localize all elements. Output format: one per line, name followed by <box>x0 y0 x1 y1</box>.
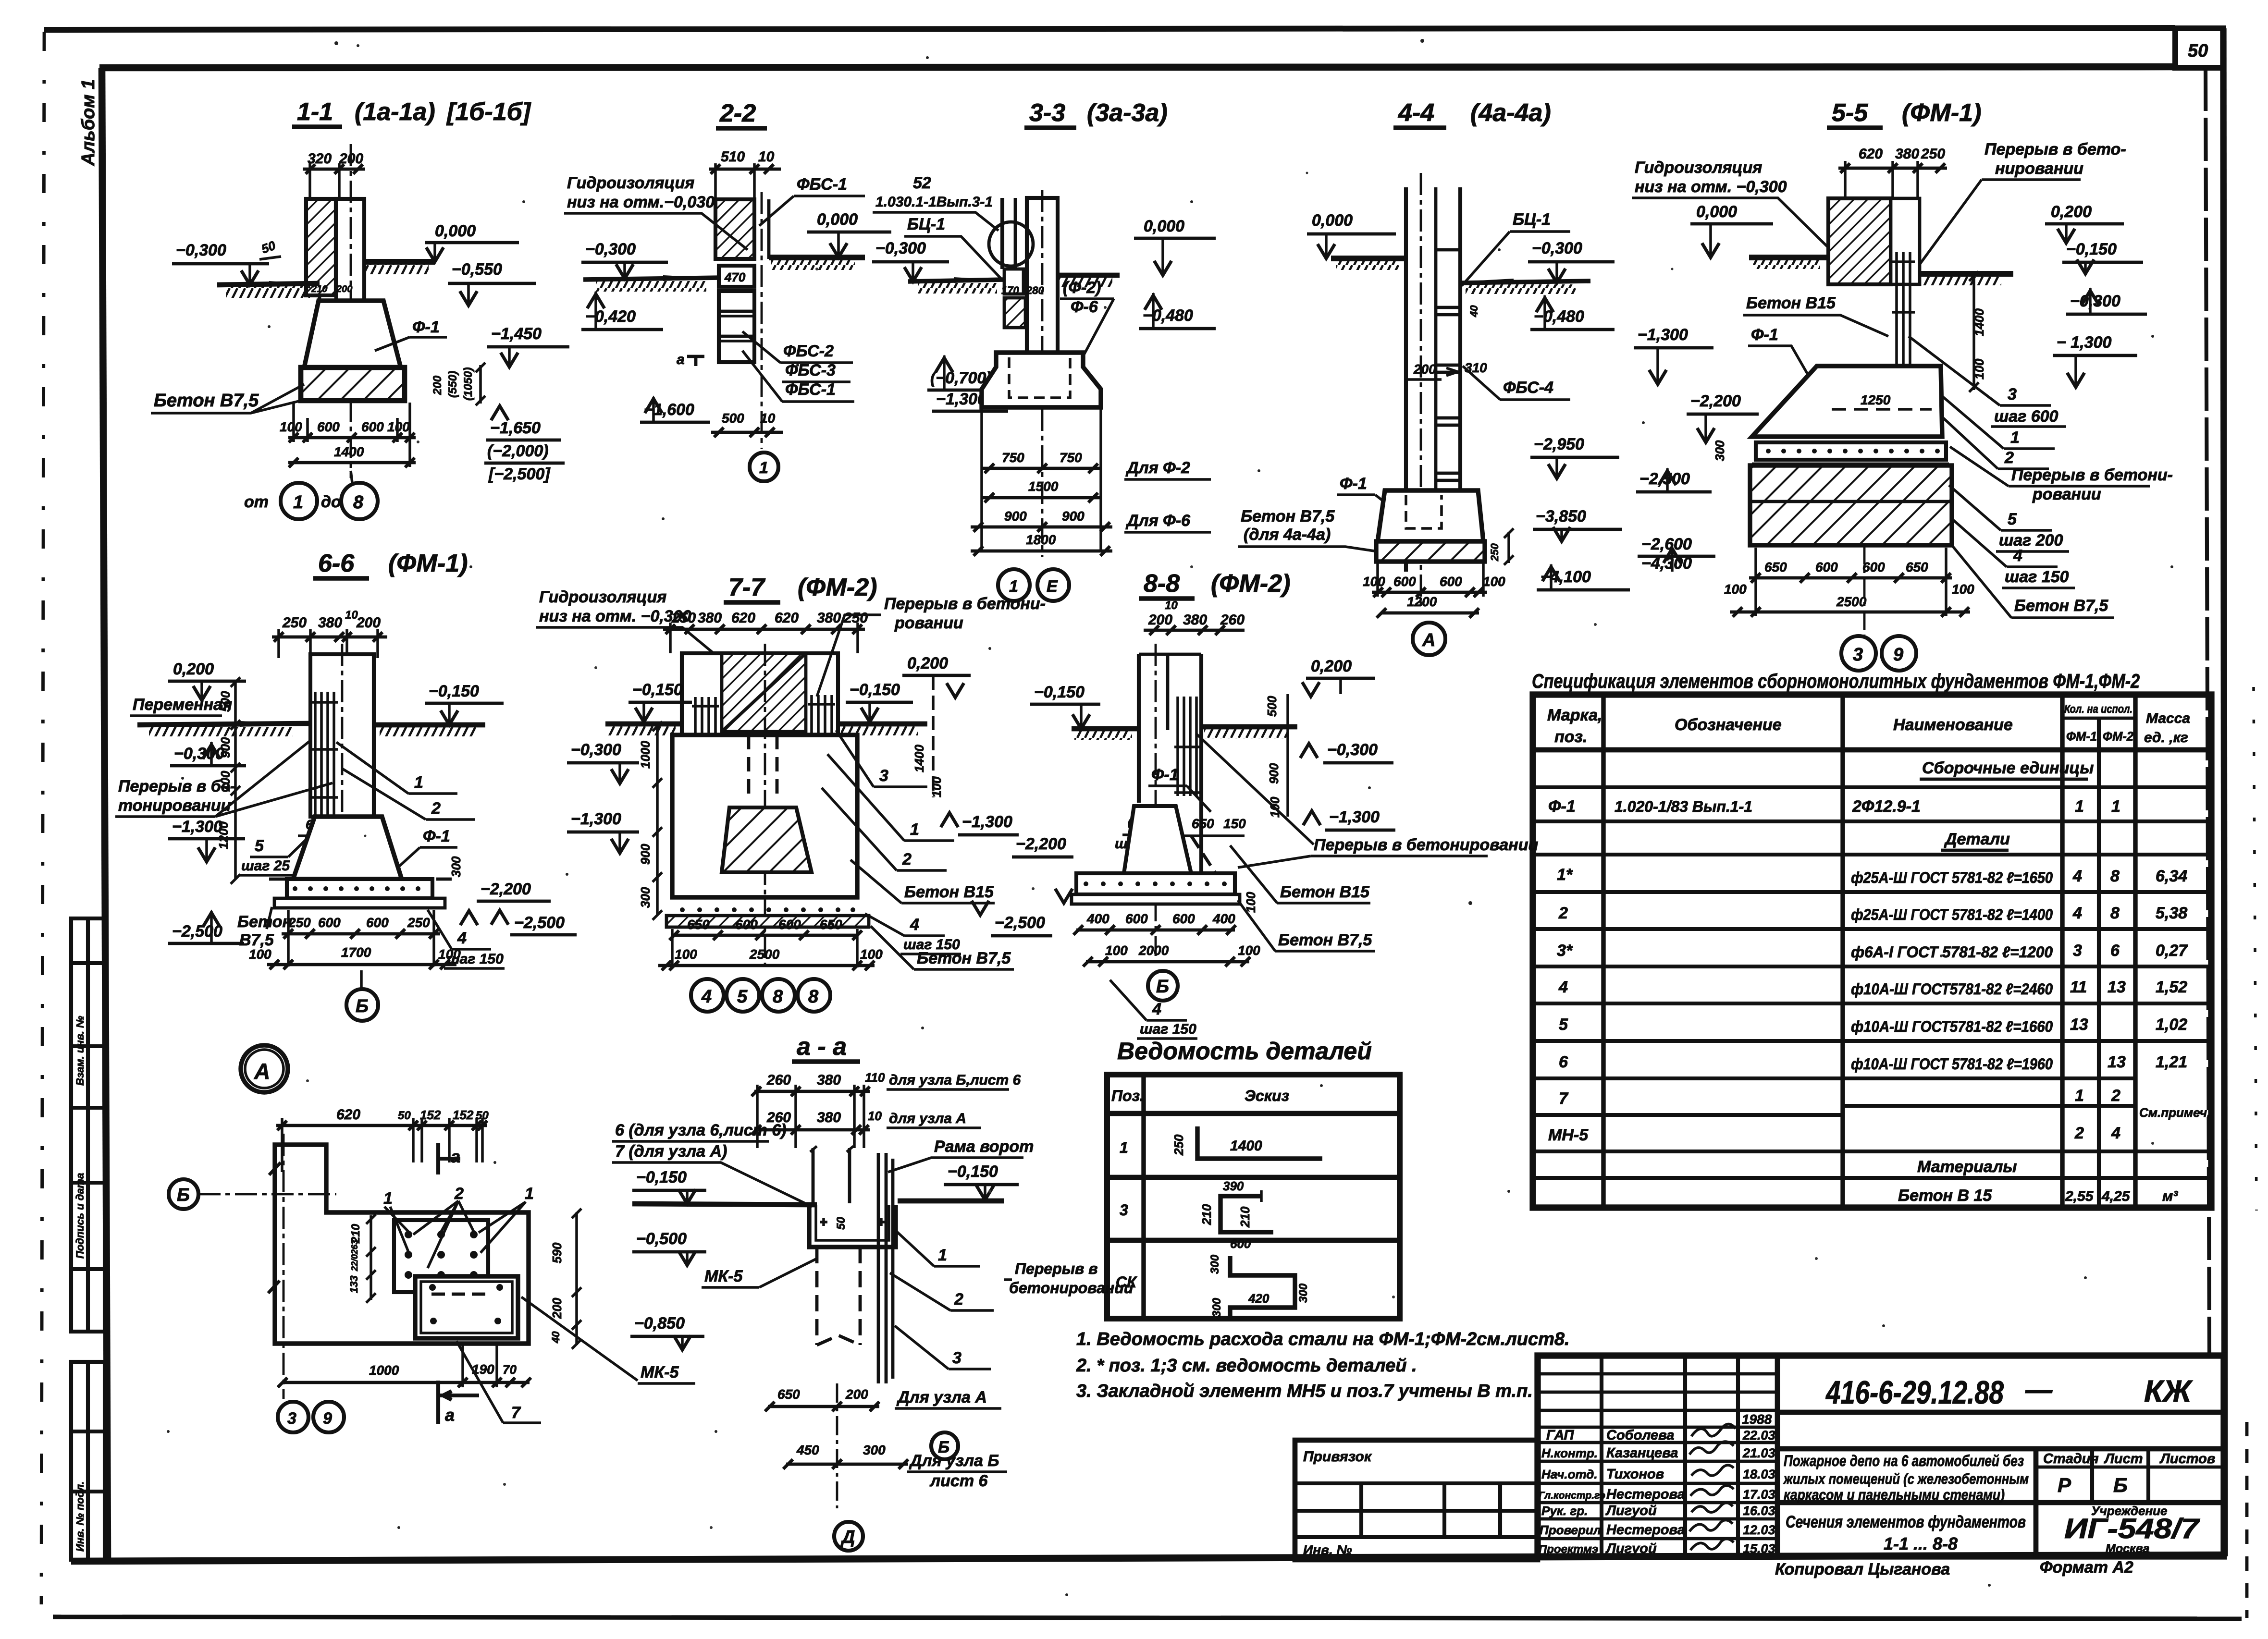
svg-text:ФБС-2: ФБС-2 <box>783 342 834 360</box>
ground left <box>217 283 320 285</box>
floor right <box>364 259 435 265</box>
svg-text:100: 100 <box>1238 943 1260 958</box>
svg-text:Переменная: Переменная <box>133 696 232 714</box>
outer top trim line <box>44 28 2175 30</box>
svg-text:Ф-1: Ф-1 <box>1151 766 1179 784</box>
svg-text:шаг 600: шаг 600 <box>1994 407 2058 426</box>
svg-text:8: 8 <box>2110 904 2120 922</box>
svg-text:1: 1 <box>1009 577 1018 596</box>
svg-text:(ФМ-1): (ФМ-1) <box>388 550 468 577</box>
svg-text:ровании: ровании <box>2032 485 2101 503</box>
svg-text:650: 650 <box>687 917 710 932</box>
footing trapezoid <box>1378 490 1483 541</box>
svg-text:1: 1 <box>2010 428 2020 447</box>
svg-text:1: 1 <box>2075 1087 2084 1105</box>
svg-text:600: 600 <box>1172 911 1195 926</box>
svg-text:750: 750 <box>1060 450 1082 465</box>
hatched core trapezoid <box>722 807 812 872</box>
svg-text:Рама ворот: Рама ворот <box>934 1138 1034 1156</box>
svg-text:Бетон В7,5: Бетон В7,5 <box>917 949 1011 967</box>
svg-text:Лигуой: Лигуой <box>1605 1541 1657 1556</box>
svg-text:380: 380 <box>817 610 841 626</box>
svg-text:Гидроизоляция: Гидроизоляция <box>567 174 694 192</box>
svg-text:10: 10 <box>868 1109 882 1123</box>
wall (hatched brick) <box>306 199 336 295</box>
svg-text:6-6: 6-6 <box>318 550 355 577</box>
svg-text:7 (для узла А): 7 (для узла А) <box>615 1142 727 1161</box>
svg-text:Бетон В7,5: Бетон В7,5 <box>2014 597 2108 615</box>
svg-text:50: 50 <box>2188 41 2208 61</box>
ground left <box>908 280 1004 281</box>
svg-text:18.03: 18.03 <box>1743 1467 1775 1481</box>
svg-text:низ на отм. −0,300: низ на отм. −0,300 <box>539 607 691 625</box>
svg-text:210: 210 <box>1199 1204 1214 1225</box>
D circle <box>834 1522 863 1551</box>
svg-text:380: 380 <box>1183 612 1207 628</box>
svg-text:Р: Р <box>2058 1474 2071 1496</box>
svg-text:ф10А-Ш ГОСТ 5781-82 ℓ=1960: ф10А-Ш ГОСТ 5781-82 ℓ=1960 <box>1851 1055 2053 1073</box>
svg-text:1,52: 1,52 <box>2156 978 2187 996</box>
svg-text:Инв. № подл.: Инв. № подл. <box>74 1481 86 1552</box>
svg-text:а: а <box>445 1405 455 1425</box>
svg-text:Москва: Москва <box>2106 1542 2149 1555</box>
column <box>336 199 364 349</box>
svg-text:8: 8 <box>773 987 783 1007</box>
svg-text:3-3: 3-3 <box>1029 99 1065 127</box>
svg-text:Перерыв в: Перерыв в <box>1015 1260 1098 1277</box>
svg-text:(3а-3а): (3а-3а) <box>1087 99 1168 127</box>
svg-text:600: 600 <box>318 915 341 930</box>
svg-text:−2,200: −2,200 <box>1690 392 1741 410</box>
svg-text:Для узла Б: Для узла Б <box>909 1452 999 1470</box>
svg-text:ФМ-1: ФМ-1 <box>2066 729 2097 744</box>
footing F-1 trapezoid <box>304 301 401 367</box>
pedestal <box>672 735 857 897</box>
svg-text:Материалы: Материалы <box>1917 1158 2017 1176</box>
footing trapezoid <box>293 817 402 879</box>
svg-text:3. Закладной элемент МН5 и поз: 3. Закладной элемент МН5 и поз.7 учтены … <box>1076 1381 1533 1401</box>
svg-text:1. Ведомость расхода стали на: 1. Ведомость расхода стали на ФМ-1;ФМ-2с… <box>1076 1329 1570 1349</box>
svg-text:—: — <box>2025 1374 2053 1405</box>
svg-text:300: 300 <box>1713 440 1727 461</box>
svg-text:1400: 1400 <box>912 745 926 772</box>
svg-text:4: 4 <box>1152 1000 1161 1018</box>
svg-text:(1050): (1050) <box>462 367 475 401</box>
svg-text:250: 250 <box>1921 146 1945 162</box>
svg-text:5: 5 <box>2008 510 2017 528</box>
svg-text:КЖ: КЖ <box>2144 1374 2193 1408</box>
svg-text:ФБС-1: ФБС-1 <box>797 175 847 194</box>
svg-text:Н.контр.: Н.контр. <box>1541 1446 1598 1460</box>
gate frame verticals <box>813 1148 893 1383</box>
frame right line <box>2223 28 2225 1556</box>
svg-text:Ф-1: Ф-1 <box>423 827 450 845</box>
svg-text:Казанцева: Казанцева <box>1606 1445 1678 1461</box>
svg-text:3: 3 <box>879 767 888 785</box>
svg-text:300: 300 <box>863 1443 886 1457</box>
axis circle A <box>1413 623 1445 655</box>
svg-text:2: 2 <box>954 1290 963 1309</box>
svg-text:1: 1 <box>383 1189 393 1208</box>
svg-text:−2,200: −2,200 <box>1016 835 1066 853</box>
svg-text:1988: 1988 <box>1742 1412 1772 1427</box>
B axis circle + axis line <box>169 1179 198 1209</box>
slab <box>287 879 432 898</box>
svg-text:50: 50 <box>835 1217 848 1230</box>
svg-text:200: 200 <box>356 615 381 631</box>
big hatched base <box>1750 465 1952 545</box>
svg-text:200: 200 <box>845 1387 868 1402</box>
svg-text:−0,300: −0,300 <box>176 241 226 259</box>
left columns <box>1600 1356 1603 1556</box>
svg-text:8-8: 8-8 <box>1144 570 1180 598</box>
ground right <box>1460 281 1590 283</box>
svg-text:52: 52 <box>913 174 931 192</box>
svg-text:1: 1 <box>938 1246 947 1264</box>
svg-text:0,200: 0,200 <box>173 660 214 678</box>
svg-text:1: 1 <box>525 1185 534 1203</box>
svg-text:5: 5 <box>1559 1015 1568 1034</box>
svg-text:600: 600 <box>1440 574 1462 589</box>
svg-text:11: 11 <box>2070 978 2087 996</box>
svg-text:(Ф-2): (Ф-2) <box>1063 279 1101 297</box>
svg-text:2Ф12.9-1: 2Ф12.9-1 <box>1852 797 1921 816</box>
svg-text:Инв. №: Инв. № <box>1303 1542 1352 1557</box>
svg-text:600: 600 <box>1862 560 1885 575</box>
svg-text:310: 310 <box>1465 360 1487 375</box>
svg-text:А: А <box>1422 630 1435 650</box>
column + wall <box>1000 198 1004 269</box>
svg-text:Соболева: Соболева <box>1606 1428 1674 1443</box>
svg-text:−0,150: −0,150 <box>1034 683 1085 701</box>
svg-text:(для 4а-4а): (для 4а-4а) <box>1244 526 1331 544</box>
axis circles 3 9 <box>278 1402 308 1432</box>
svg-text:м³: м³ <box>2162 1188 2178 1204</box>
svg-text:1*: 1* <box>1557 866 1573 884</box>
svg-text:Спецификация элементов сборном: Спецификация элементов сборномонолитных … <box>1532 670 2140 692</box>
floors <box>605 722 682 727</box>
rebar <box>1892 252 1915 384</box>
svg-text:Рук. гр.: Рук. гр. <box>1541 1504 1588 1518</box>
svg-text:600: 600 <box>778 917 801 932</box>
wall step block <box>320 295 336 333</box>
axis circle B <box>1148 971 1178 1001</box>
svg-text:100: 100 <box>929 776 944 797</box>
svg-text:17.03: 17.03 <box>1743 1487 1775 1502</box>
svg-text:600: 600 <box>735 917 758 932</box>
svg-text:ф10А-Ш ГОСТ5781-82 ℓ=2460: ф10А-Ш ГОСТ5781-82 ℓ=2460 <box>1851 980 2053 998</box>
svg-text:0,200: 0,200 <box>1311 657 1352 675</box>
svg-text:40: 40 <box>1468 305 1480 318</box>
signatures squiggles <box>1689 1424 1736 1550</box>
floor left <box>137 723 310 725</box>
rebar <box>1174 697 1200 796</box>
svg-text:0,000: 0,000 <box>1144 217 1184 235</box>
svg-text:−1,300: −1,300 <box>571 810 621 828</box>
svg-text:Стадия: Стадия <box>2043 1451 2099 1467</box>
svg-text:470: 470 <box>724 270 746 284</box>
svg-text:(ФМ-2): (ФМ-2) <box>1211 570 1290 598</box>
svg-text:БЦ-1: БЦ-1 <box>1513 210 1551 229</box>
svg-text:(ФМ-1): (ФМ-1) <box>1902 99 1981 127</box>
svg-text:3: 3 <box>287 1409 296 1428</box>
svg-text:22/0263: 22/0263 <box>350 1240 359 1272</box>
svg-text:380: 380 <box>817 1072 841 1088</box>
MK-5 channel <box>809 1205 896 1247</box>
svg-text:650: 650 <box>820 917 842 932</box>
svg-text:4: 4 <box>2072 867 2082 885</box>
svg-text:9: 9 <box>323 1409 332 1428</box>
1250 dashed dim <box>1832 408 1932 411</box>
svg-text:400: 400 <box>1212 911 1235 926</box>
svg-text:−0,420: −0,420 <box>585 307 636 326</box>
B circle <box>931 1432 958 1459</box>
svg-text:100: 100 <box>280 419 302 434</box>
svg-text:0,000: 0,000 <box>1312 211 1353 230</box>
svg-text:Для узла А: Для узла А <box>896 1388 987 1407</box>
svg-text:ФБС-3: ФБС-3 <box>785 361 836 379</box>
svg-text:Перерыв в бетони-: Перерыв в бетони- <box>884 595 1046 613</box>
svg-text:4-4: 4-4 <box>1398 99 1434 127</box>
svg-text:Ведомость деталей: Ведомость деталей <box>1117 1038 1372 1064</box>
svg-text:1: 1 <box>293 492 303 513</box>
svg-text:2: 2 <box>2111 1087 2120 1105</box>
column dashed below <box>817 1247 860 1345</box>
dashed slab top <box>269 878 452 881</box>
svg-text:низ на отм.−0,030: низ на отм.−0,030 <box>567 193 715 211</box>
svg-text:1: 1 <box>414 773 423 792</box>
svg-text:620: 620 <box>775 610 799 626</box>
frame bottom line <box>71 1555 2225 1561</box>
svg-text:Нач.отд.: Нач.отд. <box>1541 1467 1598 1481</box>
svg-text:152: 152 <box>453 1108 474 1122</box>
svg-text:0,000: 0,000 <box>435 222 476 240</box>
svg-text:(−2,000): (−2,000) <box>487 442 549 460</box>
svg-text:1800: 1800 <box>1026 532 1056 547</box>
svg-text:900: 900 <box>1004 509 1027 524</box>
svg-text:2: 2 <box>431 799 441 818</box>
svg-text:шаг 150: шаг 150 <box>2005 568 2069 586</box>
svg-text:− 1,300: − 1,300 <box>2057 333 2111 352</box>
svg-text:650: 650 <box>1906 560 1928 575</box>
svg-text:6: 6 <box>1559 1053 1568 1071</box>
svg-text:380: 380 <box>817 1110 841 1125</box>
svg-text:Бетон В15: Бетон В15 <box>904 883 994 901</box>
svg-text:260: 260 <box>766 1072 791 1088</box>
sketch pos CK <box>1230 1256 1295 1317</box>
column <box>1137 654 1141 803</box>
svg-text:4,25: 4,25 <box>2101 1188 2131 1204</box>
svg-text:Нестерова: Нестерова <box>1606 1522 1685 1538</box>
svg-text:шаг 150: шаг 150 <box>1140 1021 1196 1037</box>
svg-text:−2,950: −2,950 <box>1534 435 1584 453</box>
svg-text:(4а-4а): (4а-4а) <box>1470 99 1551 127</box>
svg-text:ФМ-2: ФМ-2 <box>2103 729 2133 744</box>
svg-text:Бетон В 15: Бетон В 15 <box>1898 1186 1992 1205</box>
wall hatched <box>1828 198 1891 284</box>
svg-text:Подпись и дата: Подпись и дата <box>74 1173 86 1259</box>
svg-text:Тихонов: Тихонов <box>1606 1467 1664 1482</box>
svg-text:600: 600 <box>366 915 389 930</box>
svg-text:Для Ф-2: Для Ф-2 <box>1125 459 1190 477</box>
floor right <box>1058 273 1120 278</box>
svg-text:каркасом и панельными стенами): каркасом и панельными стенами) <box>1784 1486 2005 1503</box>
svg-text:2: 2 <box>454 1185 464 1203</box>
svg-text:Перерыв в бетони-: Перерыв в бетони- <box>2011 466 2173 484</box>
svg-text:лист 6: лист 6 <box>929 1472 988 1490</box>
rebar bundles <box>692 695 835 804</box>
svg-text:−1,300: −1,300 <box>962 813 1012 831</box>
svg-text:−0,150: −0,150 <box>948 1162 998 1181</box>
svg-text:300: 300 <box>1208 1254 1221 1274</box>
svg-text:Взам. инв. №: Взам. инв. № <box>74 1016 86 1086</box>
svg-text:10: 10 <box>758 149 775 165</box>
svg-text:[1б-1б]: [1б-1б] <box>446 98 531 126</box>
floor right <box>1920 271 2013 277</box>
svg-text:1-1: 1-1 <box>297 98 333 126</box>
column centerline <box>350 144 352 478</box>
prep strip <box>274 898 445 908</box>
svg-text:650: 650 <box>777 1387 800 1402</box>
svg-text:Лист: Лист <box>2104 1451 2143 1467</box>
svg-text:5: 5 <box>737 987 748 1007</box>
svg-text:Гл.констр.гэ: Гл.констр.гэ <box>1539 1490 1605 1501</box>
slab dots + prep strip <box>672 895 857 899</box>
wall block <box>682 653 838 735</box>
svg-text:Обозначение: Обозначение <box>1675 716 1782 734</box>
svg-text:Ф-1: Ф-1 <box>1751 326 1778 344</box>
vertical dims left <box>234 681 237 879</box>
svg-text:ф10А-Ш ГОСТ5781-82 ℓ=1660: ф10А-Ш ГОСТ5781-82 ℓ=1660 <box>1851 1018 2053 1035</box>
svg-text:Кол. на испол.: Кол. на испол. <box>2064 703 2132 716</box>
svg-text:3*: 3* <box>1557 942 1573 960</box>
svg-text:−0,150: −0,150 <box>429 682 479 700</box>
svg-text:2: 2 <box>2004 449 2014 467</box>
svg-text:2: 2 <box>2074 1124 2084 1142</box>
svg-text:620: 620 <box>1859 146 1883 162</box>
svg-text:Д: Д <box>840 1527 855 1547</box>
svg-text:1: 1 <box>759 459 768 477</box>
svg-text:3: 3 <box>1120 1201 1128 1219</box>
svg-text:Б: Б <box>2113 1474 2128 1496</box>
svg-text:2500: 2500 <box>749 947 780 962</box>
trapezoid core <box>1124 806 1191 873</box>
svg-text:6 (для узла 6,лист 6): 6 (для узла 6,лист 6) <box>615 1121 787 1139</box>
svg-text:0,000: 0,000 <box>817 210 858 229</box>
svg-text:1700: 1700 <box>341 945 371 960</box>
svg-text:1: 1 <box>2075 797 2084 816</box>
svg-text:3: 3 <box>2008 385 2017 404</box>
svg-text:−1,300: −1,300 <box>172 818 222 836</box>
svg-text:−0,850: −0,850 <box>634 1314 685 1333</box>
svg-text:13: 13 <box>2108 978 2126 996</box>
svg-text:шаг 150: шаг 150 <box>447 951 504 967</box>
svg-text:200: 200 <box>550 1297 564 1319</box>
svg-text:500: 500 <box>722 411 744 426</box>
floor right <box>374 722 485 728</box>
svg-text:Масса: Масса <box>2146 710 2190 726</box>
svg-text:1400: 1400 <box>334 444 364 459</box>
svg-text:(ФМ-2): (ФМ-2) <box>798 574 877 601</box>
svg-text:1.020-1/83 Вып.1-1: 1.020-1/83 Вып.1-1 <box>1615 798 1752 815</box>
floor left <box>1331 256 1406 261</box>
svg-text:от: от <box>244 493 269 511</box>
svg-text:6: 6 <box>2110 942 2120 960</box>
svg-text:МН-5: МН-5 <box>1548 1126 1589 1144</box>
svg-text:8: 8 <box>808 987 819 1007</box>
svg-text:650: 650 <box>1764 560 1787 575</box>
frame left line <box>102 68 108 1560</box>
svg-text:1250: 1250 <box>1861 392 1891 407</box>
svg-text:Детали: Детали <box>1944 830 2010 848</box>
svg-text:а: а <box>451 1147 460 1166</box>
footing glass type <box>982 353 1101 407</box>
svg-text:100: 100 <box>860 947 883 962</box>
svg-text:Перерыв в бетонировании: Перерыв в бетонировании <box>1314 836 1538 854</box>
svg-text:2500: 2500 <box>1836 594 1867 609</box>
svg-text:−0,550: −0,550 <box>452 260 502 279</box>
svg-text:133: 133 <box>348 1275 360 1293</box>
svg-text:Копировал Цыганова: Копировал Цыганова <box>1775 1560 1950 1578</box>
svg-text:900: 900 <box>1062 509 1085 524</box>
big designation cell <box>1777 1410 2224 1415</box>
svg-text:−0,150: −0,150 <box>2066 240 2117 258</box>
node circle A <box>241 1045 288 1092</box>
svg-text:1: 1 <box>1120 1139 1128 1156</box>
svg-text:Пожарное депо на 6 автомобилей: Пожарное депо на 6 автомобилей без <box>1784 1452 2024 1469</box>
right vertical dims <box>575 1212 578 1345</box>
svg-text:Ф-1: Ф-1 <box>1340 475 1367 493</box>
sheet number box 50 <box>2175 28 2223 68</box>
svg-text:300: 300 <box>449 856 463 877</box>
svg-text:600: 600 <box>1230 1236 1251 1251</box>
svg-text:нировании: нировании <box>1995 159 2083 178</box>
footing trapezoid <box>1752 366 1942 437</box>
svg-text:0,200: 0,200 <box>907 654 948 673</box>
axis circles 1 E <box>998 569 1030 601</box>
svg-text:Марка,: Марка, <box>1547 706 1602 724</box>
block joints <box>1436 250 1460 531</box>
svg-text:200: 200 <box>1148 612 1172 628</box>
svg-text:а - а: а - а <box>797 1033 847 1061</box>
svg-text:21.03: 21.03 <box>1742 1446 1775 1460</box>
axis circle B <box>346 989 378 1021</box>
svg-text:Бетон В15: Бетон В15 <box>1280 883 1370 901</box>
floors <box>1072 726 1139 732</box>
svg-text:7-7: 7-7 <box>728 574 765 601</box>
svg-text:−0,150: −0,150 <box>636 1168 687 1186</box>
svg-text:7: 7 <box>1559 1089 1569 1108</box>
right outer dashed <box>2245 1422 2249 1618</box>
hatched sub-wall block <box>1004 298 1025 328</box>
svg-text:3: 3 <box>1853 645 1863 665</box>
svg-text:100: 100 <box>1105 943 1128 958</box>
svg-text:5: 5 <box>255 837 264 855</box>
svg-text:250: 250 <box>671 610 696 626</box>
FBS blocks <box>719 291 754 362</box>
svg-text:Ф-1: Ф-1 <box>1548 797 1576 816</box>
svg-text:10: 10 <box>1165 599 1178 612</box>
svg-text:Е: Е <box>1047 577 1058 596</box>
svg-text:300: 300 <box>1210 1297 1223 1317</box>
svg-text:1,21: 1,21 <box>2156 1053 2187 1071</box>
svg-text:тонировании: тонировании <box>118 796 231 815</box>
svg-text:12.03: 12.03 <box>1743 1523 1775 1537</box>
svg-text:600: 600 <box>361 419 384 434</box>
svg-text:4: 4 <box>2111 1124 2120 1142</box>
column <box>1404 187 1408 572</box>
svg-text:2-2: 2-2 <box>719 99 756 127</box>
